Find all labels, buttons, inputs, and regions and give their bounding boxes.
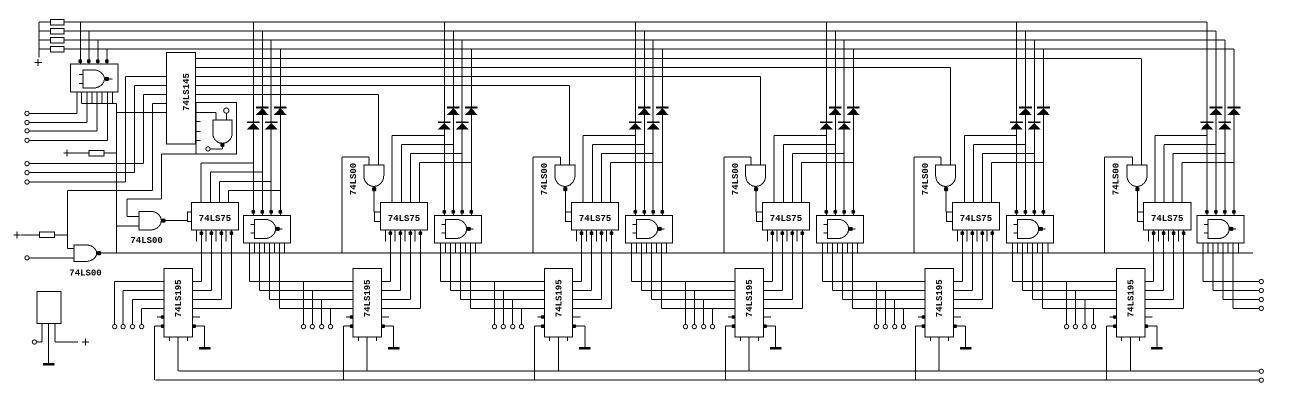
wire: output tap 2 stage 2 bbox=[502, 291, 504, 325]
svg-text:74LS75: 74LS75 bbox=[1151, 214, 1183, 224]
wire: U1 rail down to bus bbox=[116, 104, 118, 254]
wire: gate G4 output to latch enable bbox=[755, 187, 757, 212]
node: junction dot latch D1 stage 2 bbox=[389, 231, 393, 235]
node: junction dot latch D3 stage 6 bbox=[1172, 231, 1176, 235]
wire: register Q1 output stage 3 bbox=[573, 281, 582, 283]
wire: output tap 3 stage 1 bbox=[321, 300, 323, 325]
ground: register stage 5 bbox=[965, 326, 967, 348]
wire: stage1 output 1 to next register bbox=[248, 253, 250, 281]
resistor R3 bbox=[39, 39, 50, 41]
tick: latch stub pin 4 stage 1 bbox=[225, 230, 227, 242]
terminal: stage3 output 3 bbox=[702, 325, 706, 329]
diode D33 bbox=[647, 121, 660, 123]
node: register pin dot row B stage 6 bbox=[1107, 325, 1117, 327]
wire: register Q2 output stage 1 bbox=[193, 290, 212, 292]
wire: stage6 output 3 to edge terminal bbox=[1222, 253, 1224, 299]
wire: gate G6 strobe input bbox=[1141, 58, 1143, 165]
wire: U2 input C bbox=[144, 94, 167, 96]
wire: clock bus bbox=[178, 370, 1259, 372]
node: gate G2 output dot bbox=[372, 187, 376, 191]
wire: digit-strobe line 5 from 74LS145 bbox=[196, 93, 379, 95]
wire: output tap 1 stage 2 bbox=[494, 282, 496, 325]
node: gate G4 output dot bbox=[754, 187, 758, 191]
tick: register right stub stage 6 bbox=[1145, 316, 1153, 318]
gate U2b NAND body bbox=[445, 219, 466, 238]
IC 74LS195 register U2c box bbox=[353, 269, 381, 337]
terminal: stage5 output 1 bbox=[1065, 325, 1069, 329]
wire: gate G6 left input from bus bbox=[1131, 157, 1133, 165]
wire: output tap 4 stage 3 bbox=[712, 308, 714, 324]
wire: latch D2 from register output stage 1 bbox=[210, 230, 212, 291]
wire: latch D1 from register output stage 6 bbox=[1153, 230, 1155, 282]
diode D41 bbox=[820, 121, 833, 123]
diode D21 bbox=[438, 121, 451, 123]
IC driver NAND U2b box bbox=[434, 215, 481, 243]
gate U1b input stubs bbox=[250, 223, 254, 225]
svg-text:74LS00: 74LS00 bbox=[69, 268, 101, 278]
wire: Z-path to gate A upper input bbox=[161, 154, 163, 199]
terminal: BCD input 2 bbox=[25, 171, 29, 175]
tick: register right stub stage 5 bbox=[954, 316, 962, 318]
IC driver NAND U6b box bbox=[1197, 215, 1244, 243]
power +V for resistors R1-R4 bbox=[35, 62, 42, 64]
wire: stage4 diode column 2 bbox=[834, 31, 836, 213]
tick: latch stub pin 2 stage 6 bbox=[1157, 230, 1159, 242]
notch: latch enable input stage 2 bbox=[375, 212, 381, 222]
wire: gate G6 output to latch enable bbox=[1136, 187, 1138, 212]
IC 74LS195 register U1c box bbox=[164, 269, 192, 337]
node: junction dot latch D1 stage 4 bbox=[771, 231, 775, 235]
node: junction dot latch D3 stage 1 bbox=[220, 231, 224, 235]
power +V pull-up row 2 bbox=[13, 234, 20, 236]
terminal: stage1 output 2 bbox=[310, 325, 314, 329]
node: driver input dot 4 stage 2 bbox=[470, 210, 474, 214]
tick: latch stub pin 4 stage 6 bbox=[1177, 230, 1179, 242]
wire: stage5 diode column 1 bbox=[1015, 22, 1017, 213]
wire: main multiplex bus bbox=[101, 252, 1253, 254]
tick: latch stub pin 4 stage 3 bbox=[605, 230, 607, 242]
wire: stage1 diode column 3 bbox=[270, 40, 272, 213]
wire: stage3 diode column 1 bbox=[634, 22, 636, 213]
wire: gate G3 strobe input bbox=[569, 85, 571, 165]
wire: drop to gate U4 input bbox=[66, 190, 68, 248]
wire: latch D4 from register output stage 4 bbox=[801, 230, 803, 309]
terminal: stage5 output 3 bbox=[1083, 325, 1087, 329]
wire: register Q3 output stage 3 bbox=[573, 299, 602, 301]
node: register pin dot row A stage 2 bbox=[346, 316, 353, 318]
wire: stage3 output 3 to next register bbox=[650, 253, 652, 299]
wire: latch Q2 up to diode column stage 5 bbox=[972, 145, 974, 203]
wire: register shift input to bus stage 2 bbox=[343, 326, 345, 380]
diode D62 bbox=[1210, 107, 1223, 109]
resistor R6 bbox=[40, 232, 55, 237]
wire: register Q1 output stage 4 bbox=[764, 281, 773, 283]
wire: latch Q1 up to diode column stage 2 bbox=[391, 135, 393, 202]
svg-text:74LS00: 74LS00 bbox=[540, 163, 550, 195]
svg-text:74LS195: 74LS195 bbox=[554, 279, 564, 317]
power +V at X1 bbox=[82, 341, 89, 343]
wire: stage4 output 1 to next register bbox=[821, 253, 823, 281]
node: junction dot latch D3 stage 2 bbox=[409, 231, 413, 235]
wire: output tap 4 stage 2 bbox=[521, 308, 523, 324]
tick: register bottom stubs stage 1 bbox=[168, 337, 170, 341]
diode D54 bbox=[1037, 107, 1050, 109]
terminal: stage2 output 3 bbox=[511, 325, 515, 329]
terminal: stage6 output 3 bbox=[1259, 297, 1263, 301]
wire: output tap 1 stage 3 bbox=[685, 282, 687, 325]
wire: gate A lower input from U1 rail bbox=[117, 225, 139, 227]
wire: U2 input A bbox=[126, 75, 167, 77]
wire: latch D4 from register output stage 3 bbox=[611, 230, 613, 309]
wire: driver U1b output pins to bus bbox=[248, 243, 250, 253]
wire: stage5 diode column 3 bbox=[1033, 40, 1035, 213]
wire: gate G2 left input from bus bbox=[368, 157, 370, 165]
terminal: stage3 output 2 bbox=[692, 325, 696, 329]
gate U3b NAND body bbox=[636, 219, 657, 238]
node: register pin dot row B stage 4 bbox=[725, 325, 735, 327]
gate U3 NAND body (pointing down) bbox=[213, 120, 232, 143]
tick: latch stub pin 2 stage 1 bbox=[205, 230, 207, 242]
wire: latch Q1 up to diode column stage 5 bbox=[963, 135, 965, 202]
tick: latch stub pin 1 stage 4 bbox=[766, 230, 768, 242]
diode D51 bbox=[1010, 121, 1023, 123]
wire: latch Q3 up to diode column stage 4 bbox=[791, 154, 793, 203]
diode D13 bbox=[265, 121, 278, 123]
wire: stage6 output 4 to edge terminal bbox=[1232, 253, 1234, 308]
gate U1 NAND body bbox=[83, 70, 105, 88]
node: driver input dot 2 stage 2 bbox=[452, 210, 456, 214]
ground: register stage 2 bbox=[393, 326, 395, 348]
gate G5 74LS00 (digit select) bbox=[936, 165, 956, 186]
tick: register right stub stage 2 bbox=[382, 316, 390, 318]
wire: latch Q1 up to diode column stage 6 bbox=[1154, 135, 1156, 202]
node: junction dot latch D1 stage 1 bbox=[200, 231, 204, 235]
gate U6b NAND body bbox=[1208, 219, 1229, 238]
wire: common line to gate B and 145 pin4 bbox=[67, 189, 152, 191]
inverter bubble on U3 input bbox=[224, 108, 229, 113]
terminal: stage6 output 4 bbox=[1259, 306, 1263, 310]
node: driver input dot 2 stage 3 bbox=[643, 210, 647, 214]
node: junction dot U1 input 4 bbox=[105, 59, 109, 63]
tick: latch stub pin 4 stage 5 bbox=[986, 230, 988, 242]
component X1 box bbox=[37, 291, 61, 323]
svg-text:74LS195: 74LS195 bbox=[935, 279, 945, 317]
node: register pin dot row B stage 3 bbox=[535, 325, 545, 327]
wire: stage1 diode column 4 bbox=[279, 49, 281, 213]
node: register right dot stage 1 bbox=[192, 324, 196, 328]
wire: register shift input to bus stage 4 bbox=[724, 326, 726, 380]
svg-text:74LS00: 74LS00 bbox=[731, 163, 741, 195]
wire: U1 output pins to rail bbox=[81, 92, 83, 103]
wire: gate G4 strobe input bbox=[759, 76, 761, 165]
notch: latch enable input stage 3 bbox=[566, 212, 572, 222]
IC 74LS75 latch U5a box bbox=[952, 202, 999, 230]
resistor R5 bbox=[89, 150, 104, 155]
wire: register Q1 output stage 1 bbox=[193, 281, 202, 283]
node: driver input dot 2 stage 1 bbox=[261, 210, 265, 214]
svg-text:74LS75: 74LS75 bbox=[770, 214, 802, 224]
terminal: segment input d bbox=[25, 138, 29, 142]
node: driver input dot 2 stage 6 bbox=[1214, 210, 1218, 214]
node: register pin dot row A stage 3 bbox=[537, 316, 544, 318]
notch: latch enable input stage 6 bbox=[1138, 212, 1144, 222]
terminal: stage4 output 1 bbox=[874, 325, 878, 329]
terminal: BCD input 1 bbox=[25, 162, 29, 166]
ground: register stage 1 bbox=[204, 326, 206, 348]
wire: gate G2 output to latch enable bbox=[373, 187, 375, 212]
diode D14 bbox=[274, 107, 287, 109]
wire: register Q1 output stage 2 bbox=[382, 281, 391, 283]
wire: U1 pin1 to input terminal row bbox=[76, 92, 78, 113]
wire: stage6 diode column 3 bbox=[1224, 40, 1226, 213]
wire: latch D1 from register output stage 1 bbox=[200, 230, 202, 282]
wire: latch D2 from register output stage 3 bbox=[591, 230, 593, 291]
wire: latch D1 from register output stage 5 bbox=[961, 230, 963, 282]
node: junction dot latch D2 stage 2 bbox=[399, 231, 403, 235]
IC 74LS75 latch U3a box bbox=[572, 202, 619, 230]
terminal: segment input c bbox=[25, 129, 29, 133]
wire: U2 input B bbox=[135, 85, 167, 87]
wire: output tap 4 stage 4 bbox=[903, 308, 905, 324]
diode D11 bbox=[247, 121, 260, 123]
terminal: stage2 output 1 bbox=[492, 325, 496, 329]
tick: latch stub pin 4 stage 2 bbox=[414, 230, 416, 242]
notch: latch enable input stage 4 bbox=[756, 212, 762, 222]
wire: stage2 diode column 4 bbox=[470, 49, 472, 213]
node: junction dot latch D4 stage 1 bbox=[230, 231, 234, 235]
wire: latch D3 from register output stage 4 bbox=[791, 230, 793, 300]
node: gate G5 output dot bbox=[944, 187, 948, 191]
svg-text:74LS00: 74LS00 bbox=[349, 163, 359, 195]
wire: gate G5 output to latch enable bbox=[945, 187, 947, 212]
node: junction dot latch D2 stage 5 bbox=[971, 231, 975, 235]
gate A 74LS00 NAND bbox=[139, 211, 162, 230]
node: junction dot latch D4 stage 5 bbox=[991, 231, 995, 235]
node: driver input dot 3 stage 3 bbox=[651, 210, 655, 214]
wire: register Q3 output stage 1 bbox=[193, 299, 222, 301]
wire: latch Q1 up to diode column stage 3 bbox=[582, 135, 584, 202]
IC 74LS195 register U6c box bbox=[1116, 269, 1144, 337]
terminal: clock bus right end bbox=[1259, 369, 1263, 373]
wire: driver U6b output pins to bus bbox=[1202, 243, 1204, 253]
wire: register Q2 output stage 6 bbox=[1145, 290, 1164, 292]
wire: stage6 output 2 to edge terminal bbox=[1212, 253, 1214, 290]
svg-text:74LS75: 74LS75 bbox=[388, 214, 420, 224]
diode D34 bbox=[656, 107, 669, 109]
wire: register shift input to bus stage 5 bbox=[914, 326, 916, 380]
notch: latch enable input stage 1 bbox=[187, 212, 191, 222]
wire: stage6 diode column 1 bbox=[1206, 22, 1208, 213]
svg-text:74LS00: 74LS00 bbox=[1112, 163, 1122, 195]
wire: latch Q2 up to diode column stage 4 bbox=[782, 145, 784, 203]
wire: stage5 output 4 to next register bbox=[1042, 253, 1044, 308]
node: register right dot stage 4 bbox=[763, 324, 767, 328]
wire: latch Q2 up to diode column stage 2 bbox=[400, 145, 402, 203]
wire: stage2 output 2 to next register bbox=[449, 253, 451, 290]
wire: stage1 diode column 1 bbox=[252, 22, 254, 213]
wire: register Q4 output stage 4 bbox=[764, 307, 803, 309]
tick: latch stub pin 4 stage 4 bbox=[796, 230, 798, 242]
IC U2 74LS145 BCD decoder box bbox=[167, 53, 196, 145]
node: junction dot latch D1 stage 6 bbox=[1152, 231, 1156, 235]
node: register pin dot row B stage 1 bbox=[155, 325, 165, 327]
terminal: BCD input 3 bbox=[25, 180, 29, 184]
tick: latch stub pin 1 stage 3 bbox=[576, 230, 578, 242]
wire: latch Q3 up to diode column stage 2 bbox=[409, 154, 411, 203]
wire: register Q2 output stage 4 bbox=[764, 290, 783, 292]
wire: X1 left pin bbox=[41, 323, 43, 342]
wire: latch Q4 up to diode column stage 3 bbox=[610, 163, 612, 203]
wire: register clock pin to clock bus stage 3 bbox=[557, 337, 559, 371]
diode D22 bbox=[447, 107, 460, 109]
IC driver NAND U1b box bbox=[243, 215, 290, 243]
terminal: shift bus right end bbox=[1259, 378, 1263, 382]
gate U4b input stubs bbox=[823, 223, 827, 225]
wire: output tap 3 stage 3 bbox=[703, 300, 705, 325]
wire: register Q4 output stage 5 bbox=[954, 307, 993, 309]
wire: pin extensions to input terminals bbox=[86, 104, 88, 123]
resistor R4 bbox=[39, 48, 50, 50]
terminal: stage6 output 1 bbox=[1259, 279, 1263, 283]
wire: stage3 diode column 2 bbox=[643, 31, 645, 213]
wire: stage4 output 3 to next register bbox=[841, 253, 843, 299]
wire: gate G5 strobe input bbox=[949, 67, 951, 165]
terminal: shift data input 2 bbox=[121, 325, 125, 329]
ground: register stage 6 bbox=[1156, 326, 1158, 348]
wire: latch Q3 up to diode column stage 1 bbox=[218, 181, 220, 202]
diode D44 bbox=[847, 107, 860, 109]
notch: latch enable input stage 5 bbox=[946, 212, 952, 222]
wire: latch Q4 up to diode column stage 6 bbox=[1181, 163, 1183, 203]
wire: register Q4 output stage 1 bbox=[193, 307, 232, 309]
terminal: stage2 output 4 bbox=[519, 325, 523, 329]
node: junction dot latch D3 stage 3 bbox=[600, 231, 604, 235]
svg-text:74LS00: 74LS00 bbox=[921, 163, 931, 195]
wire: register Q2 output stage 5 bbox=[954, 290, 973, 292]
wire: gate G2 strobe input bbox=[377, 94, 379, 165]
diode D53 bbox=[1028, 121, 1041, 123]
terminal: stage4 output 4 bbox=[901, 325, 905, 329]
tick: latch stub pin 2 stage 3 bbox=[585, 230, 587, 242]
node: driver input dot 4 stage 5 bbox=[1042, 210, 1046, 214]
wire: stage3 diode column 4 bbox=[661, 49, 663, 213]
wire: latch D2 from register output stage 4 bbox=[781, 230, 783, 291]
IC driver NAND U4b box bbox=[816, 215, 863, 243]
wire: register Q4 output stage 2 bbox=[382, 307, 421, 309]
wire: stage6 diode column 2 bbox=[1215, 31, 1217, 213]
wire: stage4 diode column 4 bbox=[852, 49, 854, 213]
wire: stage2 diode column 2 bbox=[452, 31, 454, 213]
node: driver input dot 1 stage 2 bbox=[443, 210, 447, 214]
wire: latch Q2 up to diode column stage 3 bbox=[591, 145, 593, 203]
svg-text:74LS00: 74LS00 bbox=[130, 236, 162, 246]
wire: output tap 3 stage 4 bbox=[894, 300, 896, 325]
wire: register Q3 output stage 4 bbox=[764, 299, 793, 301]
wire: stage4 diode column 1 bbox=[825, 22, 827, 213]
ground: register stage 4 bbox=[775, 326, 777, 348]
wire: gate G3 left input from bus bbox=[559, 157, 561, 165]
gate U6b input stubs bbox=[1204, 223, 1208, 225]
IC 74LS195 register U5c box bbox=[925, 269, 953, 337]
node: driver input dot 3 stage 4 bbox=[842, 210, 846, 214]
gate U2b input stubs bbox=[441, 223, 445, 225]
wire: latch Q4 up to diode column stage 2 bbox=[419, 163, 421, 203]
wire: latch D3 from register output stage 6 bbox=[1173, 230, 1175, 300]
node: register pin dot row A stage 1 bbox=[157, 316, 164, 318]
IC driver NAND U5b box bbox=[1006, 215, 1053, 243]
wire: shift/load bus bbox=[155, 379, 1259, 381]
node: junction dot latch D3 stage 5 bbox=[981, 231, 985, 235]
gate U4b NAND body bbox=[827, 219, 848, 238]
node: junction dot latch D3 stage 4 bbox=[791, 231, 795, 235]
IC 74LS195 register U4c box bbox=[735, 269, 763, 337]
node: gate G3 output dot bbox=[563, 187, 567, 191]
node: register right dot stage 3 bbox=[573, 324, 577, 328]
diode D23 bbox=[456, 121, 469, 123]
IC U3 gate box bbox=[196, 103, 237, 155]
wire: latch D3 from register output stage 3 bbox=[601, 230, 603, 300]
terminal: stage4 output 3 bbox=[893, 325, 897, 329]
wire: segment-data bus line 1 bbox=[64, 21, 1207, 23]
diode D32 bbox=[638, 107, 651, 109]
tick: register bottom stubs stage 3 bbox=[549, 337, 551, 341]
node: junction dot U1 input 2 bbox=[87, 59, 91, 63]
tick: register right stub stage 1 bbox=[193, 316, 201, 318]
node: junction dot latch D2 stage 1 bbox=[210, 231, 214, 235]
wire: latch Q2 up to diode column stage 6 bbox=[1163, 145, 1165, 203]
wire: register Q2 output stage 3 bbox=[573, 290, 592, 292]
tick: register right stub stage 3 bbox=[573, 316, 581, 318]
wire: latch D2 from register output stage 2 bbox=[399, 230, 401, 291]
wire: register Q4 output stage 3 bbox=[573, 307, 612, 309]
wire: stage6 diode column 4 bbox=[1233, 49, 1235, 213]
wire: register Q3 output stage 2 bbox=[382, 299, 411, 301]
wire: latch D1 from register output stage 4 bbox=[771, 230, 773, 282]
power +V pull-up row 1 bbox=[64, 152, 71, 154]
wire: digit-strobe line 2 from 74LS145 bbox=[196, 66, 951, 68]
wire: stage2 diode column 3 bbox=[461, 40, 463, 213]
terminal: stage1 output 3 bbox=[320, 325, 324, 329]
node: junction dot U1 input 3 bbox=[96, 59, 100, 63]
wire: segment-data bus line 4 bbox=[64, 48, 1234, 50]
gate G3 74LS00 (digit select) bbox=[555, 165, 575, 186]
terminal: stage1 output 4 bbox=[328, 325, 332, 329]
wire: latch D4 from register output stage 2 bbox=[419, 230, 421, 309]
node: junction dot latch D1 stage 5 bbox=[961, 231, 965, 235]
wire: latch D3 from register output stage 5 bbox=[981, 230, 983, 300]
terminal: stage1 output 1 bbox=[301, 325, 305, 329]
wire: latch D2 from register output stage 5 bbox=[971, 230, 973, 291]
wire: output tap 1 stage 4 bbox=[876, 282, 878, 325]
gate G2 74LS00 (digit select) bbox=[364, 165, 384, 186]
IC U1 74LS00 quad gate box bbox=[70, 64, 118, 92]
wire: U3 left input from U2 bbox=[196, 112, 217, 114]
wire: latch D1 from register output stage 2 bbox=[389, 230, 391, 282]
wire: register shift input to bus stage 1 bbox=[154, 326, 156, 380]
terminal: stage3 output 4 bbox=[710, 325, 714, 329]
tick: latch stub pin 1 stage 5 bbox=[956, 230, 958, 242]
wire: stage2 diode column 1 bbox=[443, 22, 445, 213]
node: U3 output dot bbox=[220, 143, 224, 147]
wire: stage1 output 3 to next register bbox=[268, 253, 270, 299]
diode D63 bbox=[1218, 121, 1231, 123]
diode D52 bbox=[1019, 107, 1032, 109]
gate U5b NAND body bbox=[1017, 219, 1038, 238]
tick: register bottom stubs stage 4 bbox=[739, 337, 741, 341]
node: driver input dot 3 stage 6 bbox=[1223, 210, 1227, 214]
wire: latch Q3 up to diode column stage 3 bbox=[600, 154, 602, 203]
tick: latch stub pin 3 stage 4 bbox=[786, 230, 788, 242]
